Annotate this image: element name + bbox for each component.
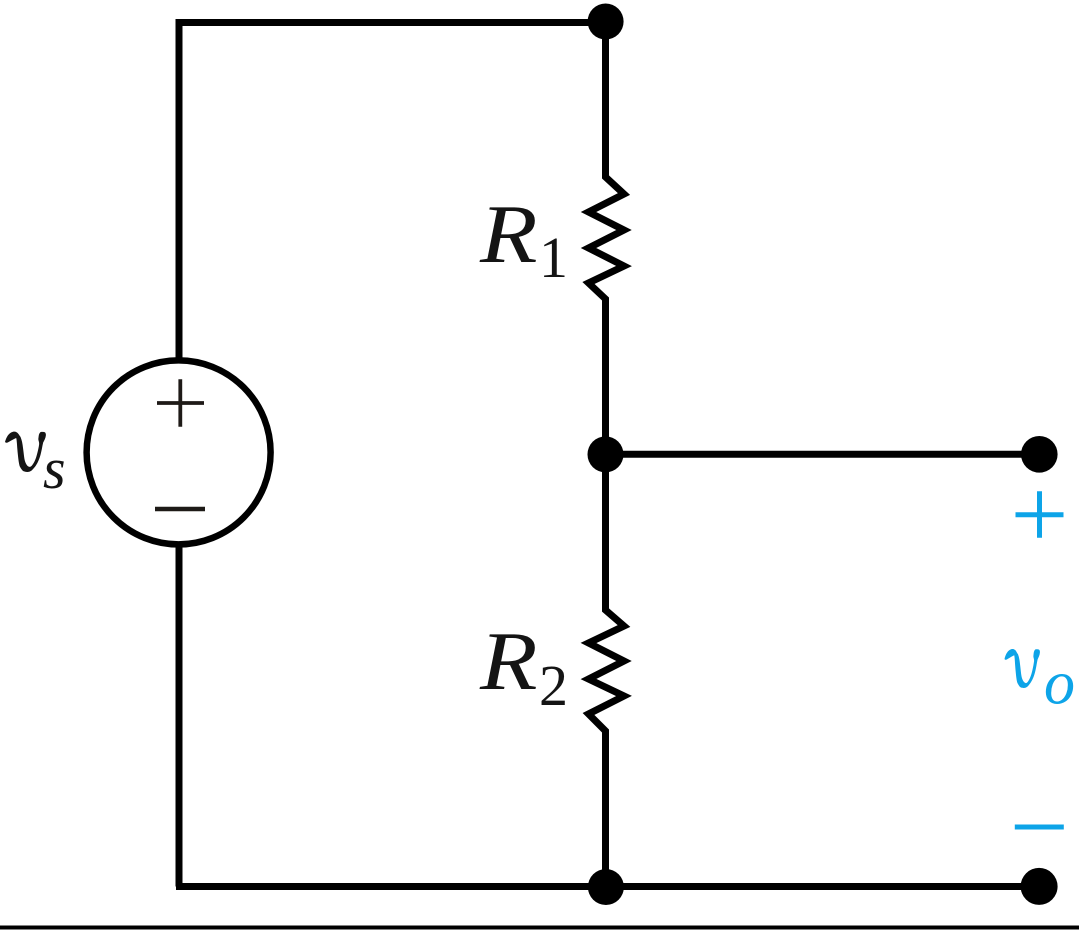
svg-text:R: R — [479, 615, 538, 708]
svg-text:R: R — [479, 188, 538, 281]
svg-text:1: 1 — [539, 225, 568, 290]
svg-text:2: 2 — [539, 653, 568, 718]
svg-text:s: s — [43, 436, 66, 501]
svg-text:o: o — [1044, 650, 1075, 718]
